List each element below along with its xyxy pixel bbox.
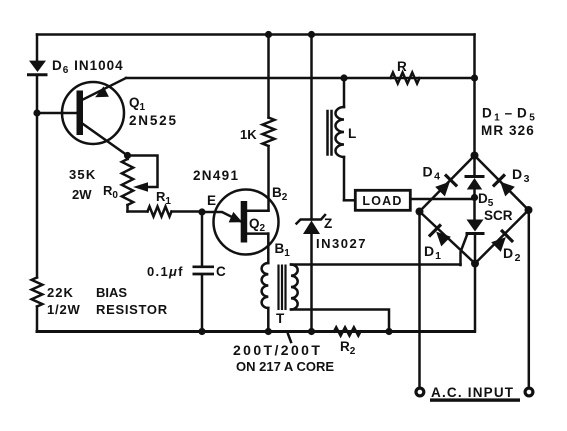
svg-text:C: C — [216, 264, 226, 279]
svg-text:B2: B2 — [272, 185, 288, 203]
capacitor C — [193, 212, 215, 332]
wire left rail mid — [36, 76, 39, 278]
node C bottom — [198, 328, 205, 335]
node L top — [340, 74, 347, 81]
svg-text:SCR: SCR — [484, 208, 513, 223]
svg-text:D4: D4 — [423, 164, 441, 183]
svg-text:Q2: Q2 — [249, 216, 266, 234]
transistor Q1 — [37, 78, 128, 156]
diode D5 (middle) — [466, 156, 483, 220]
terminal AC right — [525, 388, 533, 396]
svg-text:1/2W: 1/2W — [47, 302, 81, 317]
label 22K BIAS / 1/2W RESISTOR — [47, 285, 168, 317]
svg-text:D6 IN1004: D6 IN1004 — [52, 58, 124, 76]
node R right end — [471, 74, 478, 81]
svg-text:R1: R1 — [156, 189, 171, 207]
bridge edge L-B — [420, 212, 476, 264]
node top rail / zener line — [308, 31, 315, 38]
wire emitter rail y78 — [126, 77, 475, 80]
node bridge top — [471, 152, 479, 160]
svg-text:2N525: 2N525 — [129, 113, 178, 128]
svg-text:R2: R2 — [340, 339, 356, 357]
resistor R (on y78) — [391, 73, 420, 84]
terminal AC left — [416, 388, 424, 396]
svg-text:ON 217 A CORE: ON 217 A CORE — [236, 359, 334, 374]
wire top rail — [37, 33, 475, 36]
wire bottom rail — [37, 330, 475, 333]
diode D1 — [429, 224, 452, 247]
wire left rail lower — [36, 307, 39, 332]
svg-text:22K: 22K — [47, 285, 74, 300]
wire R1 to E — [172, 210, 203, 213]
diode D6 — [29, 61, 47, 75]
leader 200T — [288, 334, 291, 342]
bridge edge B-R — [475, 210, 529, 264]
svg-text:D5: D5 — [478, 191, 494, 209]
bridge edge L-T — [420, 156, 475, 212]
svg-text:D3: D3 — [512, 166, 530, 185]
node T right return — [385, 328, 392, 335]
wire R0 to R1 — [128, 210, 148, 213]
load box — [344, 190, 475, 210]
node transformer left bottom — [265, 328, 272, 335]
wire bridge bottom to rail — [474, 264, 477, 332]
underline A.C. INPUT — [430, 398, 520, 401]
svg-text:L: L — [348, 126, 356, 141]
wire zener line lower — [310, 234, 313, 332]
zener diode Z — [297, 215, 326, 234]
node E junction — [198, 208, 205, 215]
SCR — [461, 220, 484, 266]
wire bridge vertical top — [473, 35, 476, 156]
svg-text:200T/200T: 200T/200T — [233, 342, 322, 358]
svg-text:BIAS: BIAS — [96, 285, 127, 300]
diode D4 — [434, 174, 457, 197]
svg-text:D1: D1 — [424, 243, 441, 262]
svg-text:35K: 35K — [69, 167, 96, 182]
transformer T — [262, 234, 461, 332]
svg-text:E: E — [207, 193, 216, 208]
svg-text:D2: D2 — [503, 245, 521, 264]
node top rail / 1K — [265, 31, 272, 38]
diode D2 — [490, 230, 513, 253]
bridge edge T-R — [475, 156, 529, 211]
node R0 top — [124, 152, 131, 159]
node bridge right — [525, 206, 533, 214]
diode D3 — [493, 174, 516, 197]
inductor L — [328, 78, 345, 200]
svg-text:R: R — [397, 59, 407, 74]
resistor 1K with leads — [263, 35, 275, 211]
resistor R2 (on bottom rail) — [334, 327, 361, 335]
svg-text:RESISTOR: RESISTOR — [96, 302, 168, 317]
svg-text:LOAD: LOAD — [362, 194, 402, 208]
svg-text:A.C. INPUT: A.C. INPUT — [431, 385, 514, 400]
potentiometer R0 — [122, 156, 158, 212]
node bridge left — [416, 208, 424, 216]
transistor Q2 (2N491 UJT) — [202, 190, 279, 255]
svg-text:D1–D5: D1–D5 — [482, 106, 537, 124]
node D5/SCR junction — [471, 194, 478, 201]
wire left vertex to AC terminal — [418, 212, 421, 387]
resistor R1 — [148, 207, 172, 217]
node zener bottom rail — [308, 328, 315, 335]
svg-text:T: T — [276, 311, 285, 326]
svg-text:0.1μf: 0.1μf — [147, 264, 184, 279]
svg-text:B1: B1 — [275, 241, 291, 259]
wire left rail upper — [36, 35, 39, 62]
wire right vertex to AC terminal — [528, 210, 531, 387]
svg-text:2N491: 2N491 — [193, 168, 239, 183]
svg-text:Z: Z — [324, 216, 332, 231]
svg-text:1K: 1K — [240, 127, 257, 142]
svg-text:R0: R0 — [103, 183, 118, 201]
resistor 22K — [32, 278, 43, 307]
svg-text:Q1: Q1 — [129, 95, 146, 113]
node Q1 base — [33, 109, 40, 116]
node bridge bottom — [471, 260, 479, 268]
zener Z line upper — [310, 35, 313, 220]
svg-text:MR 326: MR 326 — [481, 123, 535, 138]
svg-text:IN3027: IN3027 — [316, 236, 367, 251]
svg-text:2W: 2W — [72, 187, 92, 202]
